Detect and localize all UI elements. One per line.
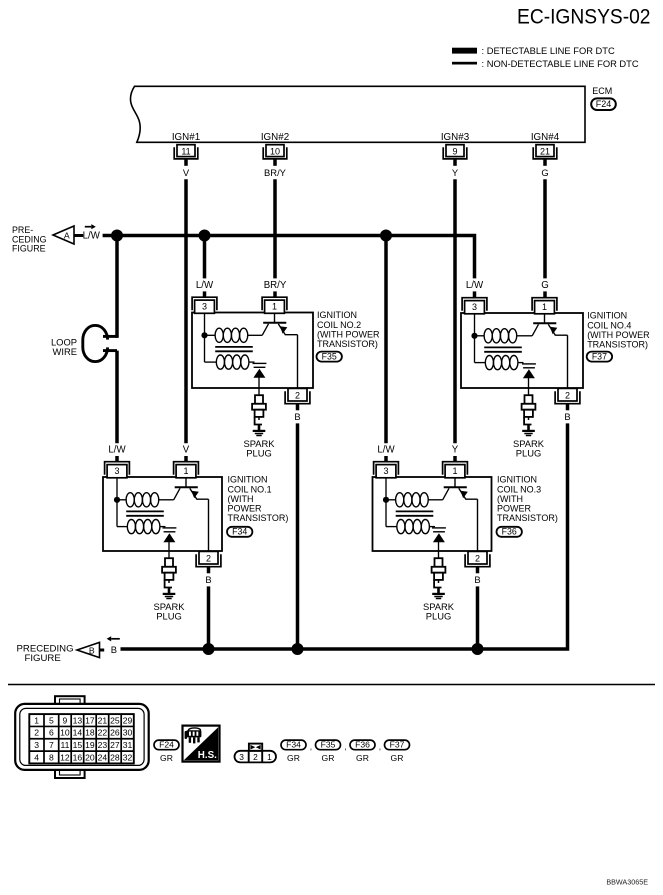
svg-text:B: B: [111, 644, 117, 655]
connector ref oval F34: [227, 527, 252, 537]
svg-text:PLUG: PLUG: [156, 610, 182, 621]
svg-text:31: 31: [123, 740, 133, 750]
svg-text:B: B: [205, 574, 211, 585]
coil No.2 wire to pin 2: [297, 335, 299, 388]
spark plug No.4 side electrode: [524, 417, 531, 425]
figure connector triangle A: [53, 226, 74, 244]
ECM connector face outline: [15, 704, 149, 770]
coil No.1 wire to pin 2: [208, 499, 210, 551]
power transistor No.3 base wire: [454, 478, 456, 488]
coil connector clip: [249, 744, 262, 751]
wire L/W down to loop wire: [115, 236, 119, 338]
spark plug No.4 center electrode: [528, 417, 530, 420]
svg-text:GR: GR: [287, 753, 300, 763]
svg-text:2: 2: [206, 553, 211, 563]
spark plug No.4 insulator top: [525, 395, 533, 404]
connector ref oval F24 (legend): [154, 740, 179, 750]
svg-text:BR/Y: BR/Y: [264, 280, 287, 291]
coil No.2 spark gap upper plate: [253, 362, 267, 364]
svg-text:3: 3: [472, 302, 477, 312]
svg-text:10: 10: [270, 146, 280, 156]
svg-text:Y: Y: [452, 445, 459, 456]
wire label L/W (coil No.4): [462, 279, 488, 290]
connector pin 1 bracket: [262, 297, 287, 310]
svg-text:,: ,: [310, 742, 312, 752]
svg-text:COIL NO.1: COIL NO.1: [228, 484, 272, 494]
wire stub below terminal 10: [273, 159, 277, 166]
coil No.3 primary winding: [386, 499, 396, 501]
coil No.1 internal junction: [114, 497, 120, 503]
svg-text:3: 3: [202, 302, 207, 312]
svg-text:PLUG: PLUG: [516, 447, 542, 458]
coil No.1 spark gap lower plate: [164, 531, 176, 533]
svg-text:L/W: L/W: [196, 280, 214, 291]
connector pin 1 box: [265, 300, 285, 313]
ground symbol line 3: [166, 598, 171, 600]
svg-text:19: 19: [85, 740, 95, 750]
svg-text:22: 22: [98, 728, 108, 738]
svg-text:(WITH POWER: (WITH POWER: [587, 330, 650, 340]
ground symbol line 3: [256, 435, 261, 437]
svg-text:15: 15: [73, 740, 83, 750]
svg-text:H.S.: H.S.: [198, 750, 217, 761]
junction dot: [292, 643, 304, 655]
spark plug No.1 side electrode: [165, 580, 172, 588]
power transistor No.4 emitter arrow: [550, 327, 558, 334]
spark plug No.3 insulator top: [435, 558, 443, 567]
svg-text:F37: F37: [390, 740, 405, 750]
ground symbol line 2: [255, 433, 263, 435]
spark plug No.2 hex body: [252, 404, 266, 410]
connector pin 2 bracket: [555, 391, 580, 404]
svg-text:,: ,: [344, 742, 346, 752]
svg-text:F24: F24: [159, 740, 174, 750]
svg-text:25: 25: [110, 715, 120, 725]
svg-text:5: 5: [49, 715, 54, 725]
connector ref oval F37: [587, 352, 612, 362]
svg-text:G: G: [541, 167, 548, 178]
spark plug No.1 ground stub: [168, 588, 171, 594]
spark plug No.3 ground stub: [437, 588, 440, 594]
svg-text:F36: F36: [502, 527, 517, 537]
svg-text:B: B: [294, 411, 300, 422]
ECM connector pin grid: [29, 714, 134, 763]
separator rule: [8, 684, 655, 686]
svg-text:F34: F34: [232, 527, 247, 537]
coil No.4 secondary winding: [475, 362, 486, 364]
spark plug No.2 center electrode: [258, 417, 260, 420]
svg-text:F34: F34: [286, 740, 301, 750]
wire B from coil No.1 to bus: [207, 586, 211, 649]
coil connector face (3 2 1): [235, 751, 277, 763]
svg-text:B: B: [89, 645, 95, 655]
svg-text:9: 9: [452, 146, 457, 156]
ECM terminal 10 box: [266, 145, 284, 157]
spark plug No.1 hex body: [162, 567, 176, 573]
ECM terminal 11 box: [177, 145, 195, 157]
coil No.4 internal wire from pin 3: [474, 314, 476, 363]
coil No.3 internal junction: [383, 497, 389, 503]
coil No.2 primary winding: [205, 334, 216, 336]
coil No.2 internal wire from pin 3: [204, 313, 206, 362]
coil No.4 spark gap upper plate: [522, 363, 536, 365]
legend non-detectable line sample: [452, 62, 477, 65]
spark plug No.2 side electrode: [255, 417, 262, 425]
svg-text:,: ,: [379, 742, 381, 752]
coil No.4 transformer core: [484, 346, 522, 348]
connector pin 3 box: [376, 465, 396, 478]
wire stub below terminal 21: [543, 159, 547, 166]
svg-text:V: V: [183, 167, 190, 178]
svg-text:FIGURE: FIGURE: [12, 244, 46, 254]
power transistor No.4 base bar: [533, 322, 556, 324]
stub from triangle A: [74, 234, 83, 237]
connector pin 1 bracket: [174, 462, 199, 475]
svg-text:IGNITION: IGNITION: [587, 311, 627, 321]
svg-text:FIGURE: FIGURE: [25, 653, 61, 664]
connector pin 3 bracket: [374, 462, 399, 475]
power transistor No.2 base bar: [263, 322, 286, 324]
wire label BR/Y (coil No.2): [262, 279, 288, 290]
svg-text:1: 1: [452, 466, 457, 476]
svg-text:TRANSISTOR): TRANSISTOR): [587, 340, 648, 350]
svg-text:28: 28: [110, 752, 120, 762]
spark plug No.3 hex body: [432, 567, 446, 573]
power transistor No.3 collector: [443, 488, 449, 500]
connector pin 3 box: [465, 301, 485, 314]
svg-text:G: G: [541, 280, 549, 291]
loop wire symbol: [83, 325, 108, 361]
stub from triangle B: [100, 649, 105, 652]
svg-text:IGNITION: IGNITION: [317, 310, 357, 320]
svg-text:18: 18: [85, 728, 95, 738]
svg-text:COIL NO.2: COIL NO.2: [317, 320, 361, 330]
wire stub below terminal 11: [184, 159, 188, 166]
wire stub below terminal 9: [453, 159, 457, 166]
wire label L/W (coil No.3): [373, 444, 399, 455]
spark plug No.1 center electrode: [168, 580, 170, 583]
coil No.3 secondary winding: [386, 526, 397, 528]
ground symbol line 3: [436, 598, 441, 600]
svg-text:L/W: L/W: [83, 231, 101, 242]
coil No.3 internal wire from pin 3: [385, 478, 387, 527]
wire L/W bus row: [103, 236, 475, 279]
power transistor No.2 emitter: [278, 324, 297, 335]
legend detectable line sample: [452, 48, 477, 54]
spark plug No.4 ground stub: [527, 425, 530, 431]
connector pin 3 bracket: [462, 298, 487, 311]
coil No.3 spark gap upper plate: [432, 527, 446, 529]
wire L/W to coil No.4 pin 3 (label gap): [473, 291, 477, 297]
svg-text:1: 1: [34, 715, 39, 725]
spark plug No.3 lead wire: [438, 551, 440, 558]
coil No.4 wire to pin 2: [567, 335, 569, 388]
wire label L/W (coil No.1): [104, 444, 130, 455]
svg-text:B: B: [474, 574, 480, 585]
svg-text:(WITH POWER: (WITH POWER: [317, 329, 380, 339]
H.S. connector icon: [189, 728, 201, 733]
connector ref oval F35: [317, 352, 342, 362]
svg-text:F37: F37: [592, 351, 607, 361]
svg-text:L/W: L/W: [108, 445, 126, 456]
wire label G (coil No.4): [532, 279, 558, 290]
svg-text:1: 1: [542, 302, 547, 312]
power transistor No.3 emitter arrow: [460, 491, 468, 498]
connector pin 3 bracket: [105, 462, 130, 475]
svg-text:BR/Y: BR/Y: [264, 167, 287, 178]
svg-text:30: 30: [123, 728, 133, 738]
coil No.3 high tension lead: [438, 542, 440, 551]
svg-text:IGN#3: IGN#3: [441, 132, 470, 143]
svg-text:A: A: [64, 230, 70, 240]
wire label Y (coil No.3): [442, 444, 468, 455]
coil No.1 high tension arrow: [163, 533, 175, 542]
svg-text:GR: GR: [356, 753, 369, 763]
svg-text:F36: F36: [355, 740, 370, 750]
spark plug No.1 shell: [165, 573, 174, 580]
coil No.4 internal junction: [471, 333, 477, 339]
svg-text:TRANSISTOR): TRANSISTOR): [228, 513, 289, 523]
svg-text:COIL NO.3: COIL NO.3: [497, 484, 541, 494]
svg-text:TRANSISTOR): TRANSISTOR): [497, 513, 558, 523]
svg-text:IGNITION: IGNITION: [228, 475, 268, 485]
svg-text:EC-IGNSYS-02: EC-IGNSYS-02: [517, 5, 651, 28]
svg-text:V: V: [183, 445, 190, 456]
svg-text:17: 17: [85, 715, 95, 725]
coil No.3 transformer core: [396, 510, 434, 512]
svg-text:: DETECTABLE LINE FOR DTC: : DETECTABLE LINE FOR DTC: [482, 46, 616, 56]
connector pin 1 box: [535, 301, 555, 314]
connector ref oval F37 (legend): [385, 740, 410, 750]
svg-text:TRANSISTOR): TRANSISTOR): [317, 339, 378, 349]
coil No.3 wire to pin 2: [477, 499, 479, 551]
svg-text:21: 21: [540, 146, 550, 156]
ECM terminal 9 bracket: [443, 147, 467, 159]
spark plug No.2 shell: [255, 410, 264, 417]
svg-text:1: 1: [267, 752, 272, 762]
svg-text:13: 13: [73, 715, 83, 725]
svg-text:27: 27: [110, 740, 120, 750]
ignition coil No.2 box: [192, 313, 313, 389]
coil No.4 high tension lead: [528, 378, 530, 388]
svg-text:4: 4: [34, 752, 39, 762]
power transistor No.3 base bar: [444, 486, 467, 488]
wire BR/Y from IGN#2 to coil No.2 pin 1: [273, 179, 277, 278]
harness connector symbol H.S.: [183, 726, 220, 762]
svg-text:GR: GR: [322, 753, 335, 763]
spark plug No.4 lead wire: [528, 388, 530, 395]
ECM terminal 10 bracket: [263, 147, 287, 159]
wire G from IGN#4 to coil No.4 pin 1: [543, 179, 547, 278]
ground symbol line 3: [526, 435, 531, 437]
svg-text:16: 16: [73, 752, 83, 762]
svg-text:7: 7: [49, 740, 54, 750]
connector pin 1 box: [445, 465, 465, 478]
ECM terminal 21 bracket: [533, 147, 557, 159]
ground symbol line 1: [253, 430, 266, 432]
coil No.3 high tension arrow: [433, 533, 445, 542]
svg-text:6: 6: [49, 728, 54, 738]
svg-text:F35: F35: [322, 351, 337, 361]
svg-text:23: 23: [98, 740, 108, 750]
coil No.4 spark gap lower plate: [523, 367, 535, 369]
power transistor No.4 collector: [532, 324, 538, 336]
svg-text:IGNITION: IGNITION: [497, 475, 537, 485]
svg-text:14: 14: [73, 728, 83, 738]
svg-text:3: 3: [383, 466, 388, 476]
svg-text:ECM: ECM: [592, 86, 612, 96]
svg-text:GR: GR: [160, 753, 173, 763]
wire label L/W (coil No.2): [192, 279, 218, 290]
svg-text:3: 3: [34, 740, 39, 750]
svg-text:F35: F35: [321, 740, 336, 750]
ECM connector face top tab: [55, 696, 85, 706]
svg-text:2: 2: [34, 728, 39, 738]
ECM terminal 11 bracket: [174, 147, 198, 159]
ECM box: [131, 86, 585, 142]
svg-text:26: 26: [110, 728, 120, 738]
svg-text:12: 12: [60, 752, 70, 762]
svg-text:2: 2: [475, 553, 480, 563]
svg-text:PLUG: PLUG: [246, 447, 272, 458]
power transistor No.2 emitter arrow: [280, 326, 288, 333]
direction arrow (to left): [111, 638, 120, 640]
svg-text:: NON-DETECTABLE LINE FOR DTC: : NON-DETECTABLE LINE FOR DTC: [482, 59, 639, 69]
coil No.2 transformer core: [215, 346, 253, 348]
svg-text:20: 20: [85, 752, 95, 762]
coil No.2 high tension arrow: [253, 369, 265, 378]
wire label V (coil No.1): [173, 444, 199, 455]
svg-text:L/W: L/W: [377, 445, 395, 456]
coil No.1 internal wire from pin 3: [116, 478, 118, 527]
ignition coil No.1 box: [103, 477, 222, 551]
connector ref oval F35 (legend): [316, 740, 341, 750]
svg-text:2: 2: [253, 752, 258, 762]
connector pin 1 box: [176, 465, 196, 478]
power transistor No.3 emitter: [459, 488, 478, 499]
wire B from coil No.2 to bus: [296, 423, 300, 649]
wire V from IGN#1 to coil No.1 pin 1: [184, 179, 188, 443]
coil No.2 spark gap lower plate: [254, 366, 266, 368]
wire Y from IGN#3 to coil No.3 pin 1: [453, 179, 457, 443]
svg-text:29: 29: [123, 715, 133, 725]
spark plug No.1 insulator top: [165, 558, 173, 567]
ground symbol line 1: [522, 430, 535, 432]
svg-text:11: 11: [60, 740, 69, 750]
spark plug No.1 lead wire: [168, 551, 170, 558]
wire B bus to preceding figure B: [121, 423, 568, 649]
spark plug No.2 insulator top: [255, 395, 263, 404]
figure connector triangle B: [77, 642, 100, 657]
coil No.2 secondary winding: [205, 361, 217, 363]
ECM terminal 21 box: [536, 145, 554, 157]
connector ref oval F34 (legend): [281, 740, 306, 750]
svg-text:COIL NO.4: COIL NO.4: [587, 320, 631, 330]
ignition coil No.4 box: [461, 313, 583, 388]
wire stub below pin 2: [566, 404, 570, 411]
svg-text:IGN#2: IGN#2: [261, 132, 289, 143]
svg-text:1: 1: [272, 302, 277, 312]
coil No.2 high tension lead: [258, 378, 260, 389]
svg-text:(WITH: (WITH: [497, 494, 523, 504]
svg-text:WIRE: WIRE: [53, 346, 77, 357]
ignition coil No.3 box: [373, 477, 492, 551]
connector pin 2 box: [558, 388, 577, 401]
coil No.2 internal junction: [201, 332, 207, 338]
power transistor No.1 base wire: [185, 478, 187, 488]
spark plug No.4 shell: [524, 410, 533, 417]
junction dot: [199, 230, 211, 242]
connector ref oval F36: [497, 527, 522, 537]
connector ref oval F24 (ECM): [591, 98, 616, 110]
spark plug No.2 ground stub: [258, 425, 261, 431]
coil No.1 spark gap upper plate: [163, 527, 177, 529]
svg-text:24: 24: [98, 752, 108, 762]
svg-text:9: 9: [63, 715, 68, 725]
power transistor No.1 emitter: [190, 488, 209, 499]
svg-text:IGN#4: IGN#4: [531, 132, 560, 143]
svg-text:10: 10: [60, 728, 70, 738]
ground symbol line 2: [524, 433, 532, 435]
ECM terminal 9 box: [446, 145, 464, 157]
ground symbol line 2: [434, 596, 442, 598]
power transistor No.1 collector: [174, 488, 180, 500]
svg-text:21: 21: [98, 715, 108, 725]
connector pin 2 box: [288, 388, 307, 401]
svg-text:F24: F24: [596, 99, 612, 109]
power transistor No.2 base wire: [274, 313, 276, 323]
junction dot: [111, 230, 123, 242]
svg-text:3: 3: [114, 466, 119, 476]
coil No.1 high tension lead: [168, 542, 170, 551]
connector pin 1 bracket: [532, 298, 557, 311]
junction dot: [203, 643, 215, 655]
svg-text:32: 32: [123, 752, 133, 762]
wire stub below pin 2: [476, 567, 480, 574]
spark plug No.2 lead wire: [258, 388, 260, 395]
svg-text:IGN#1: IGN#1: [172, 132, 200, 143]
coil No.3 spark gap lower plate: [433, 531, 445, 533]
wire L/W from loop wire to coil No.1 pin 3: [115, 351, 119, 444]
coil No.4 high tension arrow: [523, 369, 535, 378]
svg-text:POWER: POWER: [497, 504, 532, 514]
connector pin 2 box: [468, 551, 487, 564]
svg-text:2: 2: [565, 390, 570, 400]
power transistor No.1 base bar: [175, 486, 198, 488]
coil No.4 primary winding: [475, 335, 485, 337]
ECM connector face bottom tab: [55, 768, 85, 778]
svg-text:8: 8: [49, 752, 54, 762]
connector pin 3 bracket: [192, 297, 217, 310]
spark plug No.3 center electrode: [438, 580, 440, 583]
spark plug No.4 hex body: [522, 404, 536, 410]
svg-text:PLUG: PLUG: [426, 610, 452, 621]
svg-text:GR: GR: [391, 753, 404, 763]
wire stub below pin 2: [207, 567, 211, 574]
ground symbol line 1: [432, 593, 445, 595]
svg-text:11: 11: [181, 146, 190, 156]
svg-text:L/W: L/W: [466, 280, 484, 291]
wire L/W to coil No.3 pin 3: [384, 236, 388, 444]
svg-text:POWER: POWER: [228, 504, 263, 514]
wire L/W to coil No.2 pin 3: [203, 236, 207, 279]
junction dot: [380, 230, 392, 242]
svg-text:1: 1: [183, 466, 188, 476]
svg-text:(WITH: (WITH: [228, 494, 254, 504]
connector pin 3 box: [195, 300, 215, 313]
svg-text:3: 3: [239, 752, 244, 762]
coil No.1 primary winding: [117, 499, 126, 501]
